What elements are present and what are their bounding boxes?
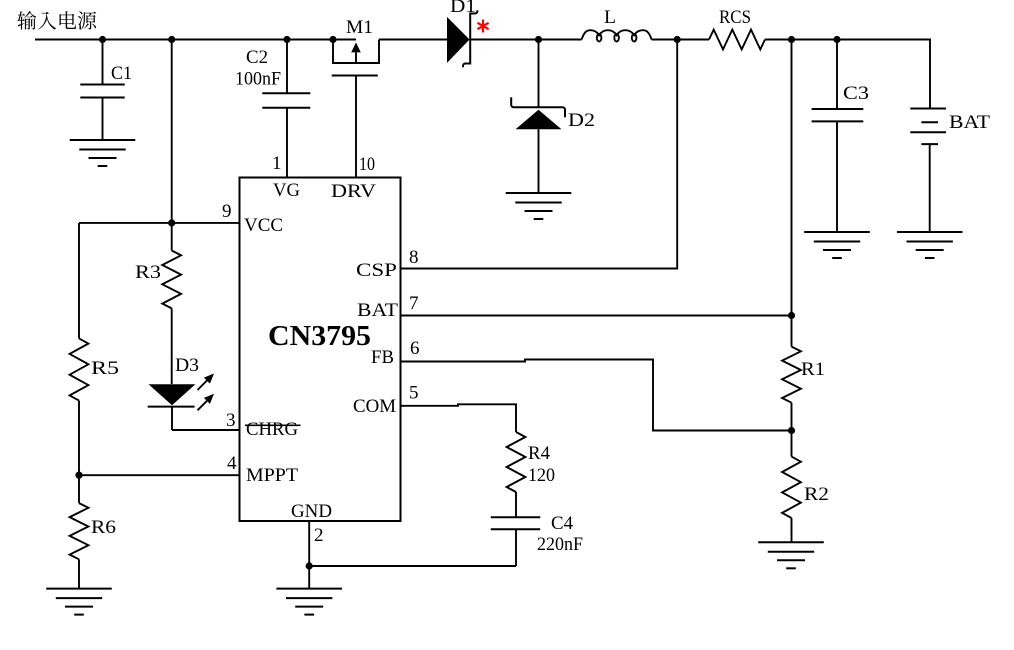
- ground under R2: [758, 542, 824, 568]
- svg-text:2: 2: [314, 525, 324, 546]
- diode D1 Schottky: [447, 0, 477, 67]
- svg-text:220nF: 220nF: [537, 534, 583, 555]
- svg-text:6: 6: [410, 338, 420, 359]
- ground under D2: [506, 193, 572, 219]
- capacitor C1: [80, 40, 132, 141]
- svg-text:10: 10: [359, 154, 375, 175]
- svg-text:CSP: CSP: [356, 260, 397, 281]
- resistor R1: [782, 347, 825, 457]
- wire M1 drain to D1 anode: [379, 39, 447, 41]
- svg-text:4: 4: [227, 453, 237, 474]
- wire VCC rail vertical: [171, 40, 173, 223]
- svg-text:R1: R1: [801, 359, 825, 380]
- wire MPPT pin4: [79, 474, 240, 476]
- node junction VCC/R3: [168, 219, 175, 226]
- node input power label 输入电源: [18, 11, 97, 30]
- wire CHRG pin3: [172, 429, 240, 431]
- resistor R5: [70, 223, 119, 475]
- svg-text:L: L: [604, 7, 616, 28]
- node junction VCC rail: [168, 36, 175, 43]
- svg-text:COM: COM: [353, 396, 396, 417]
- svg-text:R2: R2: [804, 484, 829, 505]
- svg-text:7: 7: [409, 293, 419, 314]
- resistor RCS: [709, 7, 765, 49]
- svg-text:D3: D3: [175, 355, 199, 376]
- ground under GND pin: [276, 589, 342, 615]
- node junction C3: [833, 36, 840, 43]
- ground under R6: [46, 589, 112, 615]
- svg-text:CN3795: CN3795: [268, 320, 371, 352]
- transistor M1 P-MOSFET: [332, 17, 379, 178]
- wire top rail left: [35, 39, 356, 41]
- resistor R3: [135, 223, 181, 384]
- LED D3: [148, 355, 214, 430]
- wire R1 rail vertical: [791, 40, 793, 347]
- svg-text:FB: FB: [371, 347, 394, 368]
- wire FB pin6: [401, 360, 792, 431]
- svg-text:VCC: VCC: [244, 215, 283, 236]
- svg-text:CHRG: CHRG: [246, 419, 298, 440]
- svg-text:D1: D1: [450, 0, 476, 17]
- wire CSP pin8: [401, 40, 678, 269]
- resistor R2: [782, 457, 829, 543]
- node junction MPPT/R5/R6: [75, 472, 82, 479]
- inductor L: [582, 7, 652, 42]
- ground under C1: [70, 140, 136, 166]
- capacitor C2: [235, 40, 310, 178]
- wire L to RCS: [652, 39, 709, 41]
- svg-text:MPPT: MPPT: [246, 465, 298, 486]
- svg-text:RCS: RCS: [719, 7, 751, 28]
- svg-text:120: 120: [528, 465, 555, 486]
- wire D1 cathode to L: [470, 39, 582, 41]
- wire VCC pin9 horizontal: [79, 222, 240, 224]
- svg-text:5: 5: [409, 383, 419, 404]
- svg-text:1: 1: [272, 153, 282, 174]
- svg-text:DRV: DRV: [331, 181, 376, 202]
- node junction CSP: [674, 36, 681, 43]
- svg-text:9: 9: [222, 201, 232, 222]
- svg-text:VG: VG: [273, 180, 300, 201]
- wire RCS to battery corner: [765, 40, 930, 109]
- svg-text:R6: R6: [91, 517, 116, 538]
- diode D2 Schottky: [511, 40, 595, 194]
- op-amp U1 CN3795 IC body: [240, 178, 401, 522]
- node junction C1: [99, 36, 106, 43]
- svg-text:8: 8: [409, 247, 419, 268]
- node junction GND: [306, 562, 313, 569]
- svg-text:BAT: BAT: [357, 300, 398, 321]
- wire GND pin2 stub: [308, 521, 310, 589]
- ground under C3: [804, 232, 870, 258]
- svg-text:BAT: BAT: [949, 112, 990, 133]
- svg-text:3: 3: [226, 410, 236, 431]
- node junction BAT/R1: [788, 312, 795, 319]
- ground under battery: [897, 232, 963, 258]
- svg-text:R5: R5: [91, 358, 119, 379]
- svg-text:D2: D2: [568, 110, 595, 131]
- node junction R1 rail: [788, 36, 795, 43]
- wire COM pin5: [401, 404, 517, 432]
- svg-text:C1: C1: [111, 63, 132, 84]
- node junction M1 source: [329, 36, 336, 43]
- svg-text:C2: C2: [246, 47, 268, 68]
- battery BAT: [910, 109, 990, 233]
- svg-text:C4: C4: [551, 513, 573, 534]
- svg-text:C3: C3: [843, 83, 869, 104]
- wire C4 to GND pin2: [309, 565, 516, 567]
- node junction C2: [283, 36, 290, 43]
- resistor R6: [70, 475, 116, 588]
- svg-text:R4: R4: [528, 443, 550, 464]
- node junction D2: [535, 36, 542, 43]
- svg-text:M1: M1: [346, 17, 373, 38]
- node red asterisk marker: [477, 20, 488, 33]
- capacitor C4: [491, 513, 583, 566]
- wire BAT pin7: [401, 315, 792, 317]
- svg-text:GND: GND: [291, 501, 332, 522]
- svg-text:R3: R3: [135, 262, 161, 283]
- svg-text:100nF: 100nF: [235, 69, 281, 90]
- capacitor C3: [812, 40, 869, 233]
- resistor R4: [507, 432, 555, 517]
- node junction FB/R1/R2: [788, 427, 795, 434]
